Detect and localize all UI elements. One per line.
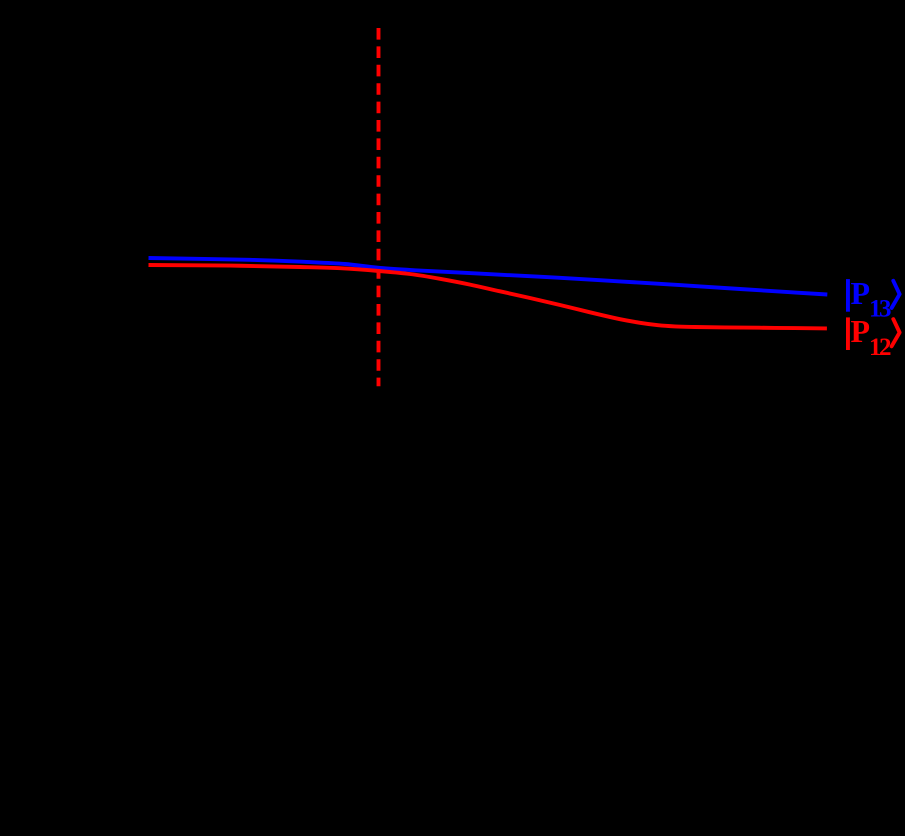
svg-text:P: P — [851, 313, 871, 349]
svg-text:12: 12 — [869, 334, 891, 361]
svg-text:P: P — [851, 275, 871, 311]
svg-text:13: 13 — [869, 296, 891, 323]
